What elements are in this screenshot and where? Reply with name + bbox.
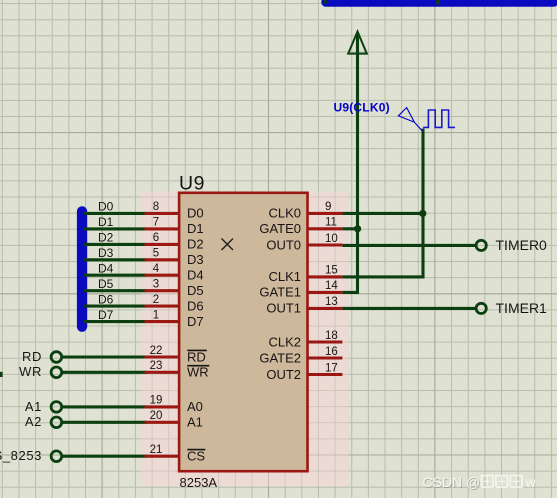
pin 8 (D0) stub xyxy=(145,212,180,215)
svg-text:GATE1: GATE1 xyxy=(259,285,301,300)
pin 21 (CS) stub xyxy=(145,455,180,458)
wire: arrow down to GATE1 xyxy=(342,34,357,293)
wire: OUT1 to TIMER1 xyxy=(342,307,476,310)
svg-text:D1: D1 xyxy=(98,215,114,229)
svg-text:6: 6 xyxy=(153,232,159,244)
svg-text:U9(CLK0): U9(CLK0) xyxy=(334,101,390,115)
pin 1 (D7) stub xyxy=(145,320,180,323)
data bus D0-D7 (vertical capsule) xyxy=(77,206,87,332)
wire D3 from bus to pin 5 xyxy=(84,258,147,261)
wire: GATE0 to arrow vertical xyxy=(342,227,359,230)
clipped wire stub at left edge xyxy=(0,372,3,377)
svg-text:CLK2: CLK2 xyxy=(268,334,301,349)
svg-text:D0: D0 xyxy=(98,200,114,214)
wire: OUT0 to TIMER0 xyxy=(342,244,476,247)
pin 17 (OUT2) stub xyxy=(308,373,343,376)
terminal A1 xyxy=(51,402,62,413)
svg-text:CS: CS xyxy=(187,449,205,464)
wire D5 from bus to pin 3 xyxy=(84,289,147,292)
pin 14 (GATE1) stub xyxy=(308,291,343,294)
pin 4 (D4) stub xyxy=(145,274,180,277)
svg-text:D7: D7 xyxy=(187,314,204,329)
pin 23 (WR) stub xyxy=(145,371,180,374)
junction: GATE0 wire / arrow vertical xyxy=(354,225,361,232)
wire D4 from bus to pin 4 xyxy=(84,274,147,277)
svg-text:w: w xyxy=(525,474,537,490)
svg-text:D2: D2 xyxy=(187,237,204,252)
svg-text:D3: D3 xyxy=(98,246,114,260)
svg-text:8: 8 xyxy=(153,201,159,213)
svg-text:5: 5 xyxy=(153,248,159,260)
terminal RD xyxy=(51,352,62,363)
svg-text:4: 4 xyxy=(153,263,160,275)
svg-text:A2: A2 xyxy=(25,414,42,429)
svg-text:D0: D0 xyxy=(187,206,204,221)
pin 7 (D1) stub xyxy=(145,227,180,230)
wire: CLK0 to generator vertical xyxy=(342,212,424,215)
terminal A2 xyxy=(51,417,62,428)
svg-text:23: 23 xyxy=(150,360,163,372)
pin 22 (RD) stub xyxy=(145,355,180,358)
svg-text:OUT1: OUT1 xyxy=(266,301,301,316)
svg-text:WR: WR xyxy=(187,365,209,380)
svg-text:8253A: 8253A xyxy=(180,475,218,490)
pin 13 (OUT1) stub xyxy=(308,307,343,310)
IC U9 body (8253A) xyxy=(179,193,307,471)
wire D0 from bus to pin 8 xyxy=(84,212,147,215)
pin 20 (A1) stub xyxy=(145,421,180,424)
wire D6 from bus to pin 2 xyxy=(84,305,147,308)
svg-text:CLK0: CLK0 xyxy=(268,206,301,221)
svg-text:A1: A1 xyxy=(187,415,203,430)
svg-text:19: 19 xyxy=(150,395,163,407)
pin 16 (GATE2) stub xyxy=(308,356,343,359)
no-model marker xyxy=(222,239,234,251)
svg-text:D6: D6 xyxy=(187,298,204,313)
svg-text:D5: D5 xyxy=(187,283,204,298)
svg-text:18: 18 xyxy=(325,330,338,342)
svg-text:CSDN @: CSDN @ xyxy=(423,474,481,490)
svg-text:U9: U9 xyxy=(179,173,205,195)
wire D1 from bus to pin 7 xyxy=(84,227,147,230)
watermark CSDN xyxy=(423,475,481,491)
pin 2 (D6) stub xyxy=(145,305,180,308)
pin 10 (OUT0) stub xyxy=(308,243,343,246)
svg-text:20: 20 xyxy=(150,410,163,422)
generator clock waveform symbol xyxy=(423,110,455,127)
terminal WR xyxy=(51,367,62,378)
svg-text:CLK1: CLK1 xyxy=(268,269,301,284)
svg-text:3: 3 xyxy=(153,279,159,291)
junction: CLK0 wire / generator vertical xyxy=(419,210,426,217)
arrow terminal (up) xyxy=(348,32,367,54)
svg-text:15: 15 xyxy=(325,265,338,277)
svg-text:13: 13 xyxy=(325,296,338,308)
bus entry stub left xyxy=(324,0,327,4)
terminal S_8253 xyxy=(51,451,62,462)
svg-text:D2: D2 xyxy=(98,231,114,245)
svg-text:D4: D4 xyxy=(187,268,204,283)
svg-text:16: 16 xyxy=(325,346,338,358)
terminal TIMER0 xyxy=(476,240,486,250)
svg-text:TIMER0: TIMER0 xyxy=(496,237,548,253)
svg-text:7: 7 xyxy=(153,217,159,229)
pin 18 (CLK2) stub xyxy=(308,340,343,343)
chip U9 selection highlight xyxy=(142,192,349,487)
svg-text:17: 17 xyxy=(325,362,338,374)
pin 3 (D5) stub xyxy=(145,289,180,292)
wire D2 from bus to pin 6 xyxy=(84,243,147,246)
generator pointer xyxy=(398,108,422,132)
pin 19 (A0) stub xyxy=(145,405,180,408)
svg-text:A1: A1 xyxy=(25,399,42,414)
bus (top) xyxy=(321,0,557,7)
svg-text:1: 1 xyxy=(153,309,159,321)
wire D7 from bus to pin 1 xyxy=(84,320,147,323)
pin 6 (D2) stub xyxy=(145,243,180,246)
svg-text:RD: RD xyxy=(187,349,206,364)
svg-text:A0: A0 xyxy=(187,399,203,414)
svg-text:11: 11 xyxy=(325,217,337,229)
terminal TIMER1 xyxy=(476,303,486,313)
svg-text:S_8253: S_8253 xyxy=(0,448,42,463)
svg-text:D3: D3 xyxy=(187,252,204,267)
svg-text:GATE2: GATE2 xyxy=(259,350,301,365)
svg-text:WR: WR xyxy=(19,364,42,379)
svg-text:D5: D5 xyxy=(98,277,114,291)
svg-text:OUT2: OUT2 xyxy=(266,367,301,382)
svg-text:14: 14 xyxy=(325,280,338,292)
bus entry stub right xyxy=(436,0,439,5)
svg-text:GATE0: GATE0 xyxy=(259,221,301,236)
pin 11 (GATE0) stub xyxy=(308,227,343,230)
svg-text:D7: D7 xyxy=(98,308,114,322)
svg-text:RD: RD xyxy=(22,349,42,364)
svg-text:OUT0: OUT0 xyxy=(266,237,301,252)
svg-text:22: 22 xyxy=(150,345,163,357)
svg-text:9: 9 xyxy=(325,201,331,213)
pin 5 (D3) stub xyxy=(145,258,180,261)
pin 9 (CLK0) stub xyxy=(308,212,343,215)
svg-text:TIMER1: TIMER1 xyxy=(496,300,548,316)
svg-text:10: 10 xyxy=(325,233,338,245)
svg-text:D6: D6 xyxy=(98,292,114,306)
svg-text:21: 21 xyxy=(150,444,163,456)
wire: clock generator down to CLK1 xyxy=(342,129,423,277)
svg-text:2: 2 xyxy=(153,294,159,306)
svg-text:D4: D4 xyxy=(98,261,114,275)
svg-text:D1: D1 xyxy=(187,221,204,236)
pin 15 (CLK1) stub xyxy=(308,275,343,278)
